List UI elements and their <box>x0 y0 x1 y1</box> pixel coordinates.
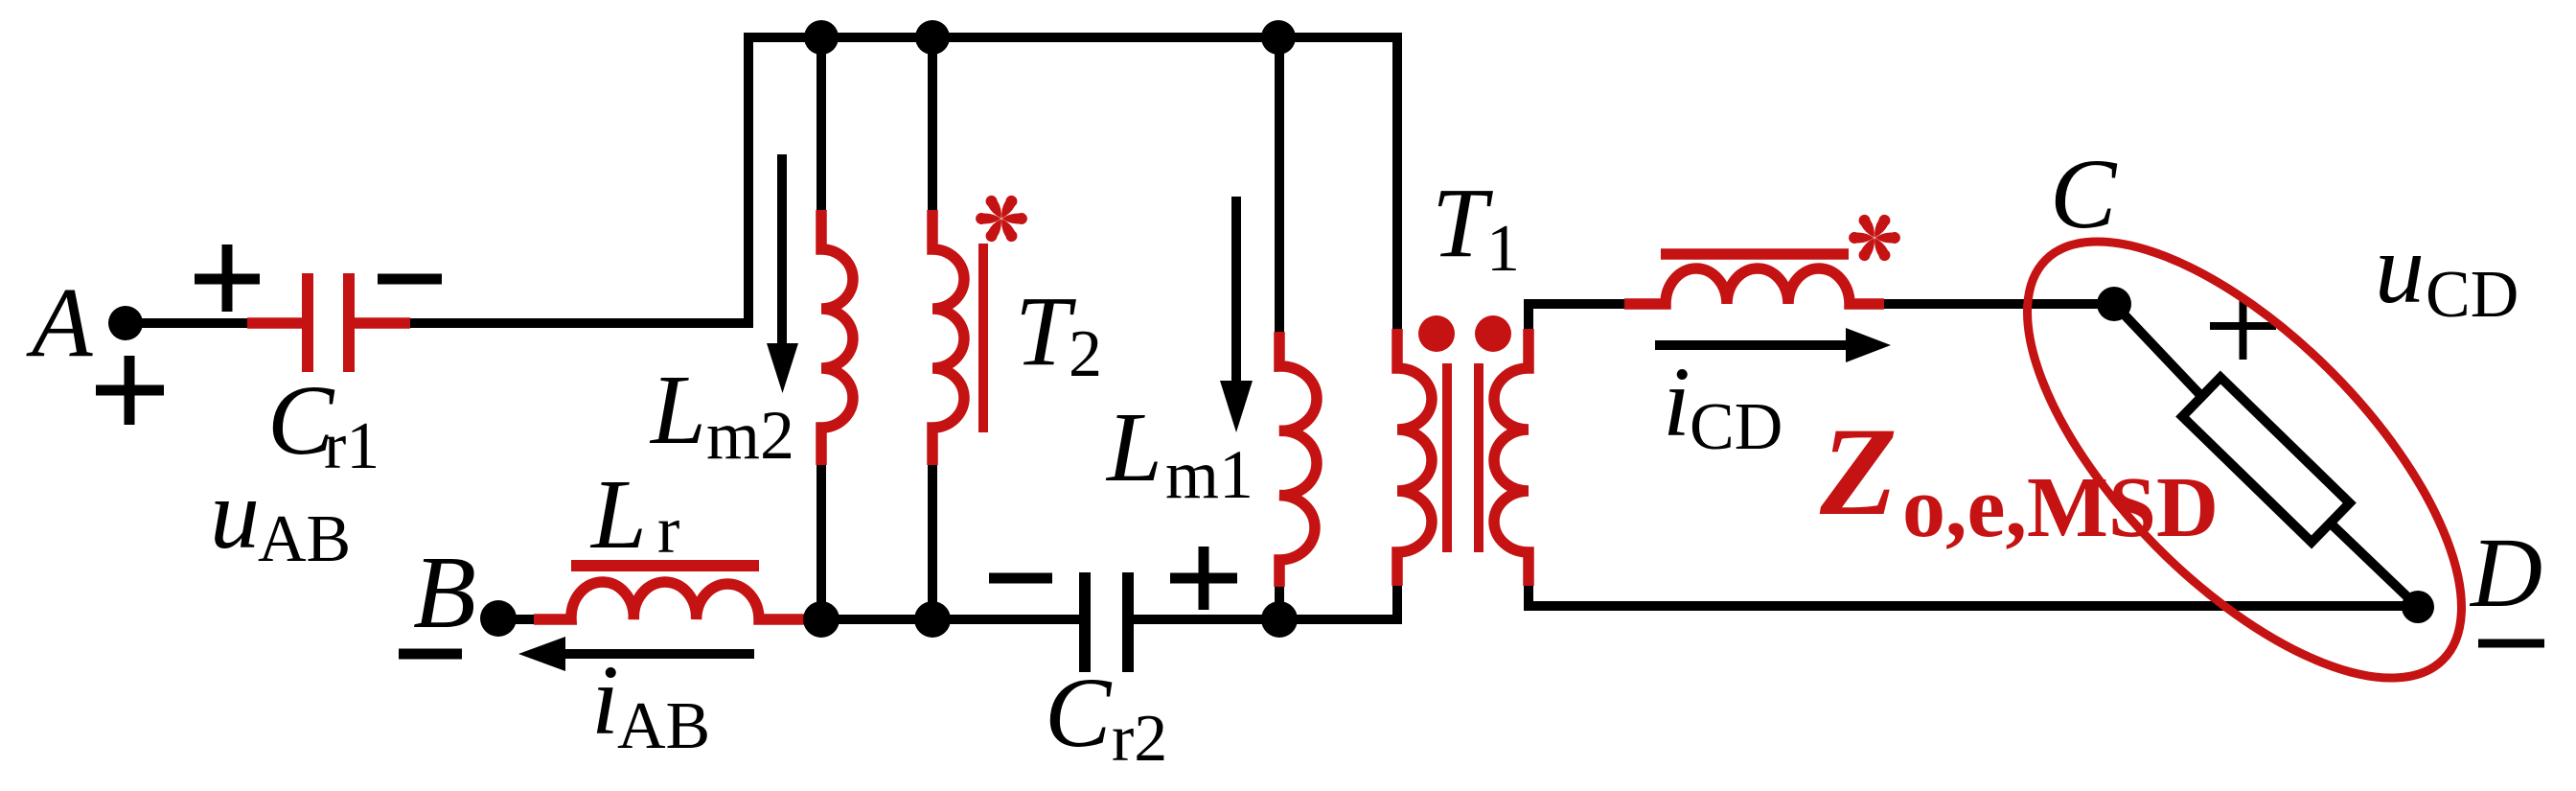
svg-text:CD: CD <box>2426 258 2518 332</box>
capacitor Cr2 plates <box>1085 572 1128 672</box>
minus sign below node D <box>2478 640 2544 648</box>
junction on top rail above T2 <box>915 20 950 55</box>
minus sign below node B <box>399 649 462 660</box>
transformer T1 core bars <box>1447 363 1479 552</box>
wire T2 bottom stub <box>928 465 937 619</box>
inductor Lr coil <box>534 582 810 619</box>
svg-text:r: r <box>657 494 679 568</box>
svg-text:A: A <box>26 268 93 378</box>
minus sign left of Cr2 <box>989 573 1052 584</box>
wire from capacitor to top rail riser and top rail to T1 left <box>407 37 1397 329</box>
transformer T2 winding coil <box>932 210 964 465</box>
svg-text:CD: CD <box>1690 390 1782 464</box>
plus sign right of Cr2 <box>1170 547 1237 610</box>
node D <box>2402 591 2434 623</box>
wire node C to resistor <box>2114 304 2202 397</box>
wire bottom rail Lr to Cr2 <box>810 615 1079 624</box>
svg-text:AB: AB <box>617 689 710 763</box>
junction on top rail above Lm1 <box>1261 20 1296 55</box>
svg-text:L: L <box>1105 392 1162 502</box>
resistor body diagonal <box>2182 378 2350 543</box>
arrow down beside Lm1 <box>1231 197 1241 384</box>
wire T1 right top stub <box>1529 304 1624 329</box>
junction bottom rail at Lm1 <box>1261 601 1298 638</box>
wire Lm1 top stub <box>1275 37 1284 332</box>
transformer T1 left winding <box>1397 329 1432 586</box>
svg-text:m1: m1 <box>1165 436 1253 513</box>
arrow iCD pointing right <box>1655 340 1848 350</box>
svg-text:o,e,MSD: o,e,MSD <box>1902 460 2219 555</box>
transformer T2 core bar <box>978 244 988 432</box>
wire Lm1 bottom stub <box>1275 587 1284 619</box>
svg-text:C: C <box>2050 139 2118 249</box>
inductor Lm1 coil <box>1279 332 1317 587</box>
transformer T1 polarity dot right <box>1475 315 1511 352</box>
plus sign above Cr1 <box>195 244 260 312</box>
plus sign below node C <box>2210 296 2276 360</box>
transformer T2 dot marker asterisk <box>976 194 1027 244</box>
wire Lm2 top stub <box>816 37 826 210</box>
red ellipse around output port <box>1958 173 2530 747</box>
node A <box>108 306 143 340</box>
series inductor core bar <box>1661 248 1849 260</box>
junction on top rail above Lm2 <box>804 20 839 55</box>
svg-text:Z: Z <box>1819 401 1897 542</box>
svg-text:L: L <box>589 459 647 570</box>
wire T1 right bottom stub and bottom rail to node D <box>1529 586 2418 606</box>
svg-text:i: i <box>1663 347 1690 457</box>
svg-text:1: 1 <box>1486 212 1520 286</box>
wire from node A to capacitor <box>126 318 251 328</box>
svg-text:i: i <box>591 645 619 756</box>
svg-text:r2: r2 <box>1112 702 1167 776</box>
svg-text:r1: r1 <box>324 409 379 483</box>
svg-text:T: T <box>1015 276 1076 386</box>
node C <box>2097 287 2131 321</box>
capacitor Cr1 red lead right <box>355 317 410 329</box>
inductor Lm2 coil <box>821 210 853 465</box>
svg-text:C: C <box>1045 658 1113 768</box>
wire Lm2 bottom stub <box>816 465 826 619</box>
plus sign below node A <box>96 356 164 425</box>
svg-text:L: L <box>649 355 706 465</box>
arrow iAB pointing left <box>563 649 754 659</box>
node B <box>480 600 517 637</box>
svg-text:m2: m2 <box>706 397 794 474</box>
wire series inductor to node C <box>1884 299 2114 309</box>
series inductor dot marker asterisk <box>1849 213 1900 264</box>
capacitor Cr1 plates <box>308 273 349 372</box>
transformer T1 right winding <box>1494 329 1529 586</box>
wire node B lead <box>498 615 534 624</box>
capacitor Cr1 red lead left <box>247 317 302 329</box>
svg-text:u: u <box>2375 214 2425 324</box>
junction bottom rail at T2 <box>914 601 951 638</box>
svg-text:T: T <box>1432 168 1493 278</box>
wire T2 top stub <box>928 37 937 210</box>
series inductor coil on right top wire <box>1624 268 1884 304</box>
svg-text:u: u <box>210 459 260 570</box>
wire resistor to node D <box>2330 523 2418 607</box>
arrow down beside Lm2 <box>777 154 787 347</box>
inductor Lr core bar <box>571 560 759 571</box>
junction bottom rail at Lm2 <box>803 601 839 638</box>
svg-text:2: 2 <box>1069 317 1102 391</box>
svg-text:AB: AB <box>258 502 351 576</box>
svg-text:D: D <box>2469 518 2542 628</box>
transformer T1 polarity dot left <box>1418 315 1455 352</box>
svg-text:B: B <box>413 536 476 650</box>
wire bottom rail Cr2 to T1 left bottom <box>1134 586 1397 619</box>
minus sign right of Cr1 <box>378 274 442 285</box>
